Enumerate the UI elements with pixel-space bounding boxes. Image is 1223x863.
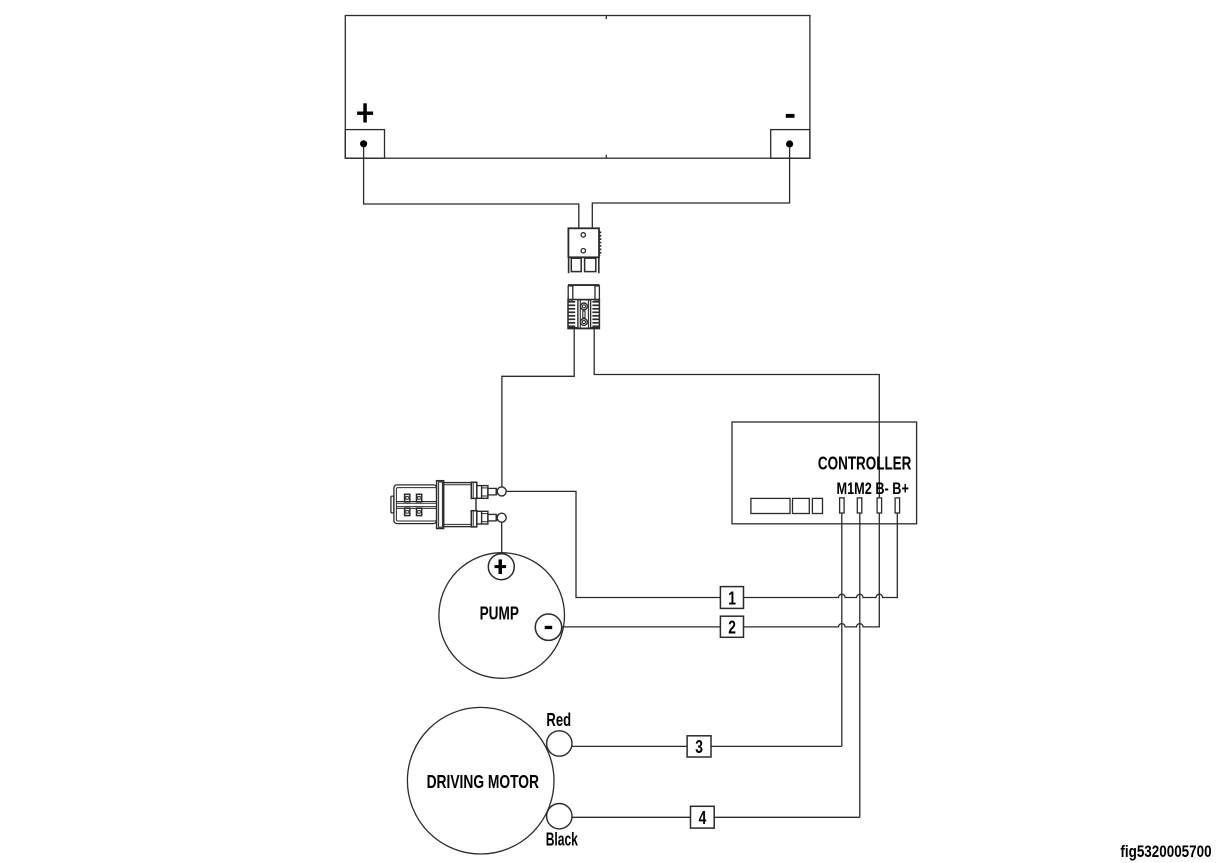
svg-text:1: 1 <box>728 587 736 608</box>
contactor K1 top terminal ball <box>497 487 506 496</box>
pump negative terminal circle <box>535 614 561 640</box>
contactor K1 top nut <box>477 486 488 499</box>
contactor K1 mounting flange <box>437 481 444 529</box>
svg-text:Black: Black <box>546 829 579 850</box>
contactor K1 center band <box>396 502 442 509</box>
battery negative terminal box <box>771 130 810 159</box>
contactor K1 clip bottom-left <box>405 508 410 515</box>
battery minus sign label <box>786 114 795 118</box>
contactor K1 coil housing outer <box>394 485 437 524</box>
connector P2 right post <box>595 286 599 300</box>
controller terminal pin M1 <box>840 498 845 513</box>
battery cell divider tick bottom <box>605 155 607 158</box>
wire 4 from box 4 to M2 drop <box>714 816 860 818</box>
connector P1 side serration <box>599 232 601 256</box>
contactor K1 coil end tab <box>391 496 394 513</box>
connector P2 central channel <box>578 300 591 328</box>
connector plug P1 (battery side) <box>568 228 599 257</box>
svg-text:4: 4 <box>699 807 707 828</box>
controller internal connector block large <box>751 498 790 513</box>
connector P1 left skirt wall <box>568 257 570 273</box>
svg-text:3: 3 <box>695 736 703 757</box>
svg-text:M1M2 B- B+: M1M2 B- B+ <box>837 479 909 498</box>
contactor K1 clip top-right <box>417 494 422 501</box>
svg-text:fig5320005700: fig5320005700 <box>1120 842 1211 861</box>
wire 3 red terminal to box 3 <box>572 745 688 747</box>
wire 1 from box1 to controller B+ with hops <box>744 513 898 597</box>
wire controller M2 down to wire 4 <box>859 513 861 817</box>
contactor K1 bottom stud <box>488 514 496 521</box>
wire 2 from box2 to controller B- with hops <box>744 513 880 627</box>
svg-text:2: 2 <box>728 617 736 638</box>
contactor K1 coil housing inner <box>396 488 436 521</box>
wire contactor bottom terminal to pump positive <box>501 522 503 554</box>
wire battery negative to connector <box>592 147 789 228</box>
pump M2 body circle <box>439 553 565 679</box>
wire controller M1 down to wire 3 <box>841 513 843 746</box>
motor red terminal circle <box>547 731 572 756</box>
connector P1 contact hole lower <box>581 249 585 253</box>
wire contactor top terminal to wire 1 run <box>506 491 720 597</box>
wire label box 1 <box>720 587 743 609</box>
svg-text:CONTROLLER: CONTROLLER <box>818 452 912 473</box>
wire 3 from box 3 to M1 drop <box>711 745 842 747</box>
pump positive plus sign <box>495 559 507 574</box>
connector P1 left blade contact <box>571 258 581 271</box>
wire connector to controller B- <box>594 329 879 498</box>
connector P2 central channel inner lines <box>579 300 581 328</box>
wire battery positive to connector <box>364 147 579 228</box>
wire label box 2 <box>720 616 743 637</box>
connector P2 left serrations <box>568 302 575 327</box>
battery cell divider tick top <box>605 16 607 20</box>
contactor K1 cylinder inner bottom line <box>444 523 472 525</box>
battery positive terminal dot <box>360 140 367 147</box>
contactor K1 clip bottom-right <box>417 508 422 515</box>
connector P1 right skirt wall <box>598 257 600 273</box>
connector P1 right blade contact <box>585 258 596 271</box>
contactor K1 cylinder body <box>444 483 476 527</box>
driving motor M1 body circle <box>407 707 554 854</box>
pump positive terminal circle <box>488 554 514 580</box>
connector P2 upper bolt <box>581 303 588 310</box>
wire 4 black terminal to box 4 <box>572 816 691 818</box>
svg-text:DRIVING MOTOR: DRIVING MOTOR <box>427 771 539 792</box>
contactor K1 bottom end cap <box>471 511 477 527</box>
battery negative terminal dot <box>786 140 793 147</box>
contactor K1 top end cap <box>471 482 477 498</box>
contactor K1 bottom nut <box>477 511 488 524</box>
controller terminal pin M2 <box>857 498 862 513</box>
battery positive terminal box <box>345 130 384 159</box>
connector P2 bottom edge thick <box>568 327 599 329</box>
contactor K1 clip top-left <box>405 494 410 501</box>
connector P2 right serrations <box>592 302 599 327</box>
controller internal connector block medium <box>793 498 810 513</box>
controller box <box>732 422 917 524</box>
contactor K1 bottom terminal ball <box>497 513 506 522</box>
motor black terminal circle <box>547 804 572 829</box>
svg-text:Red: Red <box>546 709 571 730</box>
connector socket P2 (controller side) top mating bar <box>568 284 599 286</box>
connector P2 left post <box>568 286 573 300</box>
battery plus sign label <box>357 103 373 122</box>
contactor K1 cylinder inner top line <box>444 484 472 486</box>
wire label box 3 <box>687 736 711 757</box>
wire label box 4 <box>691 806 715 828</box>
battery BT1 body <box>345 16 810 159</box>
pump negative minus sign <box>545 626 553 629</box>
connector P2 center slot <box>583 311 585 318</box>
contactor K1 top stud <box>488 488 496 495</box>
wire connector to contactor (positive feed) <box>502 329 574 487</box>
svg-text:PUMP: PUMP <box>480 603 519 624</box>
controller internal connector block small <box>812 498 822 513</box>
contactor K1 mounting flange inner <box>439 482 443 527</box>
connector P2 body <box>568 300 599 329</box>
connector P1 contact hole upper <box>581 233 585 237</box>
controller terminal pin B- <box>877 498 882 513</box>
wire 2 pump negative to label box 2 <box>562 626 721 628</box>
controller terminal pin B+ <box>895 498 900 513</box>
connector P2 lower bolt <box>581 319 588 326</box>
